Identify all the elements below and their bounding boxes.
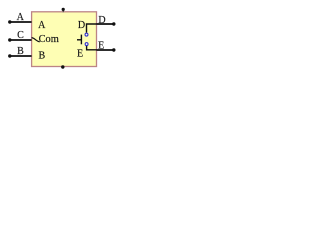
- node B (wire end dot): [8, 54, 11, 57]
- wire throw D (up then right to pin D): [87, 24, 97, 33]
- wire pin B: [10, 55, 32, 57]
- svg-text:B: B: [17, 46, 24, 57]
- subcircuit body U1: [32, 12, 97, 67]
- switch contact circle E: [85, 43, 88, 46]
- svg-text:B: B: [38, 51, 45, 62]
- switch SW1 pole bar: [80, 35, 82, 45]
- node D (wire end dot): [112, 22, 115, 25]
- pin marker top (unconnected pin stub): [62, 8, 65, 12]
- wire pin D: [97, 23, 114, 25]
- node A (wire end dot): [8, 20, 11, 23]
- node E (wire end dot): [112, 48, 115, 51]
- svg-text:C: C: [17, 30, 24, 41]
- svg-text:A: A: [17, 12, 25, 23]
- svg-text:E: E: [98, 40, 104, 51]
- svg-text:E: E: [77, 49, 83, 60]
- switch SW1 common stub: [77, 39, 81, 41]
- svg-text:A: A: [38, 20, 46, 31]
- svg-text:Com: Com: [39, 34, 59, 45]
- background: [0, 0, 125, 79]
- wire pin A: [10, 21, 32, 23]
- node C (wire end dot): [8, 38, 11, 41]
- pin marker bottom (unconnected pin stub): [61, 65, 64, 68]
- wire throw E (down then right to pin E): [87, 46, 97, 50]
- svg-text:D: D: [78, 20, 85, 31]
- wire squiggle from Com pin (switch lever lead): [32, 38, 40, 42]
- svg-text:D: D: [98, 15, 105, 26]
- wire pin E: [97, 49, 114, 51]
- wire pin C: [10, 39, 32, 41]
- switch contact circle D: [85, 33, 88, 36]
